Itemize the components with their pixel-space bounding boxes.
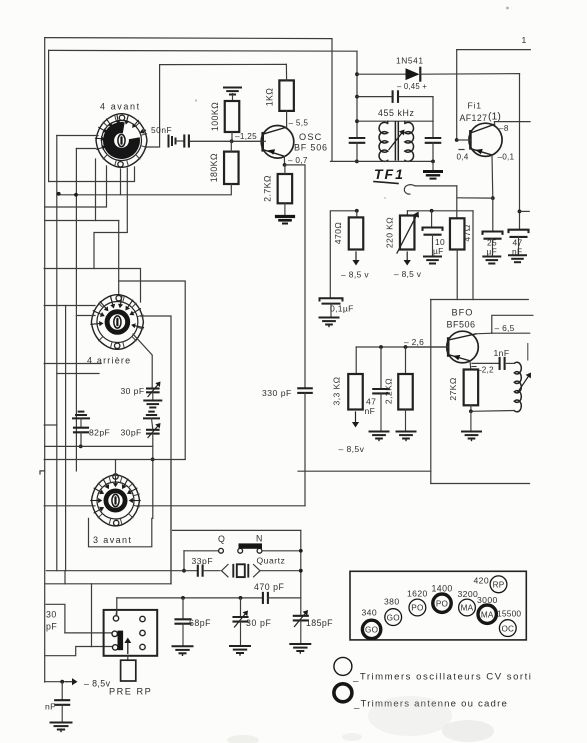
capacitor 82pF [74,418,110,437]
capacitor trimmer 30pF lower [121,418,161,437]
svg-text:15500: 15500 [497,609,521,619]
svg-text:OSC: OSC [299,132,323,142]
svg-text:BF 506: BF 506 [294,143,328,153]
wire S1 pin d [45,159,96,221]
trimmer MA 3200 [458,589,479,616]
power -8,5v arrow [66,678,111,688]
wire left bus V6 [65,306,67,571]
svg-text:455 kHz: 455 kHz [378,108,414,118]
svg-text:30pF: 30pF [121,428,142,438]
legend text oscillateurs [352,672,532,683]
junction [355,119,359,123]
label 455 kHz [378,108,414,118]
wire 47 bottom [456,250,458,300]
resistor 1K [265,80,294,111]
transformer TF1 [357,121,433,161]
junction [299,569,303,573]
capacitor 1nF [472,348,514,369]
wire 100K to base [231,132,233,141]
svg-text:2,2KΩ: 2,2KΩ [384,378,394,404]
wire coil bottom [471,410,514,413]
junction [379,345,383,349]
svg-text:TF1: TF1 [374,166,405,182]
wire bus line B [49,49,357,52]
svg-text:33pF: 33pF [192,556,214,566]
capacitor 470pF [254,582,285,603]
trimmer PO 1400 [432,584,453,613]
ground 10uF [424,257,441,264]
wire coupling loop [404,185,456,194]
wire BFO bottom row [298,470,431,472]
svg-text:AF127: AF127 [460,113,488,123]
wire PRE RP top feed [115,610,118,616]
wire left bus V4 [75,149,77,471]
capacitor trimmer 30pF upper [121,382,161,397]
wire to W2 top [96,221,119,295]
svg-text:N: N [256,534,263,544]
junction [355,72,359,76]
svg-text:4 avant: 4 avant [100,102,141,112]
transistor Q1 OSC BF506 [190,126,328,159]
wire 2.7K stem [284,165,286,174]
svg-text:47: 47 [366,397,376,407]
svg-text:OC: OC [501,624,514,633]
wire S2 left 2 [76,315,95,317]
wire quartz row left [46,570,196,572]
wire row 470pF [117,597,262,599]
svg-text:µF: µF [487,247,498,257]
wire -6,5 row [492,332,530,334]
svg-text:– 5,5: – 5,5 [289,119,309,128]
wire AF base drop [456,50,458,140]
svg-text:GO: GO [365,626,378,635]
svg-text:– 6,5: – 6,5 [495,323,515,333]
svg-text:30: 30 [46,610,57,620]
svg-text:(1): (1) [488,111,501,123]
svg-text:30 pF: 30 pF [121,386,145,396]
wire row 646 left [92,646,113,648]
svg-text:–8: –8 [499,124,509,133]
svg-text:–0,1: –0,1 [498,153,515,162]
ground 82pF inv [73,412,89,419]
junction [491,196,495,200]
svg-text:PO: PO [436,599,448,608]
resistor 2.7K [263,174,293,203]
wire diode drop right [519,74,521,230]
junction [181,596,185,600]
capacitor 33pF [192,556,214,576]
wire row 633 [65,632,112,634]
junction [355,209,359,213]
wire row 470pF right [268,597,301,599]
wire 1K top [285,64,287,80]
wire left bus V1 [44,38,46,682]
svg-text:1620: 1620 [407,589,428,599]
wire AF box top [457,49,531,51]
wire W2 top feed 2 [119,281,186,459]
resistor 220K variable [385,211,420,253]
resistor 27K [448,370,478,406]
wire BFO top row [431,299,529,301]
svg-text:–1,25: –1,25 [235,132,257,141]
svg-text:GO: GO [387,613,400,622]
junction [355,160,359,164]
ground 27K [462,411,481,440]
svg-text:30 pF: 30 pF [246,618,272,628]
wire S3 drop [170,460,172,584]
svg-text:0,1µF: 0,1µF [330,304,354,314]
ground 2.7K [277,203,294,223]
wire quartz jog [64,571,66,584]
trimmer MA 3000 [477,595,498,623]
resistor 47 [450,218,472,249]
panel trimmers box [350,571,526,640]
svg-text:nF: nF [45,702,56,712]
resistor 100K [210,101,239,132]
junction [430,209,434,213]
svg-text:470Ω: 470Ω [333,222,343,245]
wire emitter to V301 [285,165,305,388]
svg-text:1KΩ: 1KΩ [265,88,275,107]
capacitor 330pF [262,388,312,506]
junction [74,193,78,197]
wire switch left drop [183,551,185,571]
capacitor 10uF [423,211,445,256]
svg-text:185pF: 185pF [306,618,333,628]
resistor 3,3K [332,347,363,410]
rotary switch wafer S2 4 arriere [87,295,144,366]
capacitor trimmer 185pF [294,610,333,643]
svg-text:100KΩ: 100KΩ [210,102,220,131]
junction base node [230,132,257,143]
capacitor 0,1uF [320,298,354,317]
trimmer GO 340 [362,608,381,639]
wire row 446 [45,445,153,447]
svg-text:Fi1: Fi1 [468,101,482,111]
svg-text:0,4: 0,4 [457,153,469,162]
svg-text:27KΩ: 27KΩ [448,377,458,400]
svg-text:MA: MA [461,604,474,613]
svg-text:1N541: 1N541 [396,56,424,66]
wire BFO collector [476,332,492,335]
arrow 220K to -8,5v [394,252,422,279]
wire AF emitter [491,155,494,198]
rotary switch wafer S3 3 avant [91,474,140,545]
junction [518,210,522,214]
wire W2 top feed [44,269,140,303]
svg-text:3,3 KΩ: 3,3 KΩ [332,376,342,405]
capacitor 47nF BFO [365,347,389,431]
legend thin circle [334,657,352,675]
wire jog small [44,424,57,426]
svg-text:pF: pF [46,622,57,632]
wire collector up jog [492,315,533,333]
label -0,7 [288,156,308,165]
capacitor tank right [426,121,441,161]
svg-text:3000: 3000 [477,595,498,605]
wire S2 lower left 1 [44,363,101,365]
junction [355,95,359,99]
wire switch top line [173,529,301,531]
trimmer PO 1620 [407,589,428,616]
wire AF collector [495,122,531,125]
wire bus line C [160,63,287,65]
wire left bus V2 [48,50,50,181]
ground 47nF BFO [370,432,389,441]
wire 1K collector [286,111,288,127]
wire S1 pin a [49,167,135,182]
resistor 470 [333,211,363,250]
ground 25uF [483,257,500,264]
wire 82pF stem [79,432,83,448]
wire line A drop [331,39,333,162]
wire left bus V3 [56,136,58,571]
wire 180K bottom [230,184,232,195]
wire S1 pin c [45,166,107,207]
capacitor coupling 455kHz [357,91,433,121]
svg-text:– 8,5v: – 8,5v [84,679,111,689]
ground 30pF bottom [230,646,250,655]
junction [404,345,408,349]
label -8 [499,124,509,133]
resistor 180K [209,152,239,184]
capacitor 50nF [151,125,189,147]
ground 30pF lower inv [144,412,159,419]
wire S1 pin e jog [94,168,127,269]
wire jog 0.1uF [330,211,357,297]
wire S2 to trimmer chain [133,334,152,388]
wire drop to PRE RP [116,598,118,616]
label 30 pF with bracket [46,604,65,633]
svg-text:– 8,5 v: – 8,5 v [341,270,369,280]
wire S1 left 1 [57,135,98,137]
wire S3 left [44,505,95,507]
ground 68pF [173,646,193,655]
capacitor tank left [350,138,365,161]
diode D1 1N541 [357,56,520,92]
legend thick circle [334,684,352,702]
ground TF1 [425,161,442,178]
capacitor nF bottom [45,682,69,712]
svg-text:BFO: BFO [452,308,474,318]
label -5,5 [289,119,309,128]
wire row 584 [45,583,171,585]
svg-text:50nF: 50nF [151,125,172,135]
connector PRE RP lower block [121,656,136,681]
svg-text:470 pF: 470 pF [254,582,285,592]
svg-text:– 8,5v: – 8,5v [339,444,365,454]
svg-text:420: 420 [474,576,490,586]
arrow 470 to -8,5v [341,252,369,280]
wire emitter node [283,156,287,167]
junction [57,192,61,196]
label -0,4 [457,150,469,162]
wire S3 top riser [115,460,117,478]
svg-text:2.7KΩ: 2.7KΩ [263,175,273,202]
svg-text:180KΩ: 180KΩ [209,153,219,182]
wire 180K stem [230,141,232,151]
wire BFO feed drop [472,211,474,300]
capacitor 25uF [483,198,503,256]
crystal quartz [203,556,301,578]
wire emitter row [457,197,493,199]
wire S1 left 2 [76,148,96,150]
arrow 3,3K to -8,5v [339,412,365,454]
rotary switch wafer S1 4 avant [95,102,147,168]
resistor 2,2K [384,347,413,410]
wire drop 91 [91,584,93,647]
svg-text:380: 380 [384,597,400,607]
trimmer RP 420 [474,576,507,593]
wire row 210 [407,210,473,212]
svg-text:82pF: 82pF [89,428,110,438]
wire hump drop [456,186,458,218]
svg-text:PO: PO [411,604,423,613]
trimmer OC 15500 [497,609,521,637]
svg-text:RP: RP [493,581,505,590]
svg-text:– 0,7: – 0,7 [288,156,308,165]
svg-text:MA: MA [481,610,494,619]
svg-text:_Trimmers oscillateurs CV s: _Trimmers oscillateurs CV sorti [352,672,532,683]
transistor Q2 Fi1 AF127 [457,101,502,157]
svg-text:Q: Q [218,534,225,544]
wire row 459 [44,459,185,461]
label -6,5 [495,323,515,333]
wire jog 656 [45,647,92,656]
wire S1 pin b2 to 180K [121,194,231,196]
svg-text:68pF: 68pF [189,618,211,628]
wire S1 right [145,65,160,147]
wire jog bottom left [40,471,45,474]
wire BFO left drop [430,300,432,484]
transistor Q3 BFO BF506 [406,331,479,363]
capacitor 68pF [176,598,212,646]
junction [182,569,186,573]
junction [431,160,435,164]
capacitor 47nF right [509,230,529,257]
wire wafer3 right link [137,505,305,507]
svg-text:–2,2: –2,2 [477,366,494,375]
connector PRE RP [104,610,158,697]
label BF506 [447,320,476,330]
svg-text:340: 340 [362,608,378,618]
svg-text:BF506: BF506 [447,320,476,330]
svg-text:1nF: 1nF [494,348,510,358]
ground 100K top [224,88,241,102]
wire BFO emitter [469,361,472,370]
svg-text:220 KΩ: 220 KΩ [385,217,395,248]
wire row 682 [45,681,66,683]
wire line B drop [356,51,358,138]
wire S2 right [141,316,172,584]
svg-text:– 0,45 +: – 0,45 + [397,82,427,91]
svg-text:– 2,6: – 2,6 [404,337,424,347]
svg-text:3 avant: 3 avant [93,535,132,545]
trimmer GO 380 [384,597,402,626]
svg-text:3200: 3200 [458,589,479,599]
wire TF1 bottom [331,160,434,162]
wire S2 lower left 2 [57,373,99,375]
svg-text:1: 1 [522,35,527,45]
ground 2,2K [397,410,416,441]
label BFO [452,308,474,318]
junction [60,680,64,684]
label box 3 avant [89,518,152,546]
svg-text:– 8,5 v: – 8,5 v [394,269,422,279]
svg-text:1400: 1400 [432,584,453,594]
wire 50nF to base [190,140,265,142]
legend text antenne [353,699,508,710]
wire bus line A [45,38,332,39]
wire switch right drop [300,530,302,615]
junction [299,549,303,553]
svg-text:330 pF: 330 pF [262,388,292,398]
label TF1 [374,166,405,184]
label -2,6 [404,337,424,347]
wire stub [520,210,530,212]
wire S1 pin b [57,169,121,195]
wire S2 left 1 [44,305,95,307]
wire BFO base row [356,346,447,348]
switch Q/N contacts [184,534,301,554]
capacitor trimmer 30pF bottom [234,598,272,645]
ground 0,1uF [320,318,339,327]
wire 27K bottom [469,405,473,413]
junction [239,596,243,600]
label -0,1 [498,153,515,162]
svg-text:47Ω: 47Ω [462,224,472,241]
wire BFO bottom right [431,483,530,485]
ground 47nF right [509,255,526,262]
ground 185pF [290,644,310,653]
svg-text:PRE RP: PRE RP [109,687,152,697]
label 1 page ref [522,35,527,45]
ground bottom left [51,705,72,732]
svg-text:Quartz: Quartz [257,556,286,566]
label -2,2 [472,366,494,375]
svg-text:µF: µF [433,246,444,256]
wire 30pF chain drop [151,434,155,519]
junction [455,138,459,142]
inductor BFO coil [514,344,531,412]
ground 30pF upper [144,392,161,407]
svg-text:nF: nF [365,406,376,416]
